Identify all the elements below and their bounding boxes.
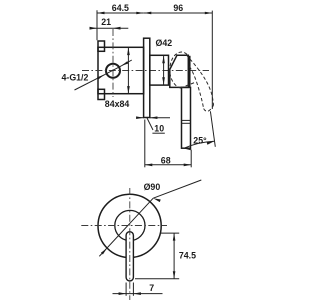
grip ring detail — [182, 119, 191, 121]
horizontal centerline — [81, 225, 167, 227]
vertical centerline — [129, 188, 131, 300]
cartridge housing — [150, 55, 169, 85]
leader line through port hole — [104, 66, 121, 75]
wall plate (edge view) — [144, 38, 150, 117]
svg-text:7: 7 — [149, 283, 154, 293]
25 degree arc — [183, 141, 214, 148]
svg-text:74.5: 74.5 — [179, 251, 196, 261]
D90 leader upper segment — [153, 180, 201, 198]
escutcheon outer circle D90 — [98, 194, 161, 257]
leader arrow lower — [97, 75, 104, 80]
extension lines 74.5 — [160, 232, 179, 234]
leader line 4-G1/2 lower segment — [75, 75, 105, 90]
dashed lever end cap — [204, 105, 214, 111]
leader arrow upper — [121, 61, 128, 66]
port hole circle G1/2 — [106, 64, 120, 78]
svg-text:64.5: 64.5 — [112, 3, 129, 13]
dome right edge thick — [189, 56, 191, 88]
svg-text:84x84: 84x84 — [105, 99, 130, 109]
dashed rotated dome bottom edge — [180, 83, 194, 89]
dimension line D42 — [163, 56, 165, 85]
svg-text:21: 21 — [101, 17, 111, 27]
horizontal centerline through both top views — [82, 70, 209, 72]
leader line 4-G1/2 upper segment — [121, 60, 132, 66]
mounting tab top-left — [98, 41, 105, 51]
vertical dimension line 84 — [127, 48, 129, 93]
svg-text:10: 10 — [154, 124, 164, 134]
lever handle grip (solid, pointing down) — [182, 87, 191, 148]
svg-text:Ø90: Ø90 — [144, 182, 161, 192]
inner circle — [115, 210, 145, 240]
svg-text:25°: 25° — [193, 136, 207, 146]
svg-text:Ø42: Ø42 — [156, 38, 173, 48]
dashed rotated dome top arc — [170, 52, 188, 72]
leader for 10 — [147, 118, 153, 130]
vertical centerline of port hole — [112, 29, 114, 97]
escutcheon dome — [170, 55, 189, 87]
handle rod (front view) — [126, 232, 133, 281]
extension line left of 64.5 — [96, 10, 98, 40]
svg-text:68: 68 — [161, 155, 171, 165]
dashed rotated dome bottom-left curve — [170, 73, 181, 88]
dashed rotated silhouette right edge / lever right edge — [186, 55, 213, 105]
dimension 10 (plate thickness) — [137, 117, 144, 119]
extension lines for 68 — [144, 120, 146, 168]
svg-text:96: 96 — [173, 3, 183, 13]
valve body square 84x84 — [98, 47, 144, 93]
svg-text:4-G1/2: 4-G1/2 — [62, 73, 89, 83]
D90 leader through segment — [99, 198, 153, 256]
lever angle extension line — [210, 111, 215, 147]
extension lines 7 — [125, 283, 127, 296]
dashed rotated lever left edge — [190, 67, 204, 109]
mounting tab bottom-left — [98, 89, 105, 99]
extension line right of 96 (to rotated lever tip) — [211, 11, 213, 109]
